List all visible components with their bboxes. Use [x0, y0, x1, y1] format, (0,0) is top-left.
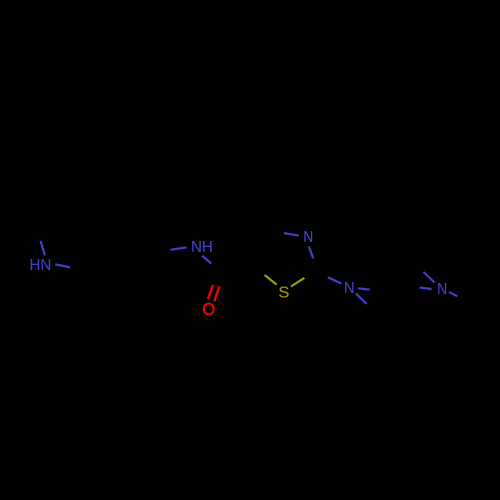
svg-text:N: N: [437, 281, 447, 298]
svg-text:N: N: [344, 280, 355, 297]
svg-text:N: N: [303, 229, 313, 246]
svg-text:S: S: [278, 284, 289, 301]
svg-text:HN: HN: [30, 257, 52, 274]
svg-text:NH: NH: [191, 239, 213, 256]
svg-text:O: O: [202, 299, 215, 319]
